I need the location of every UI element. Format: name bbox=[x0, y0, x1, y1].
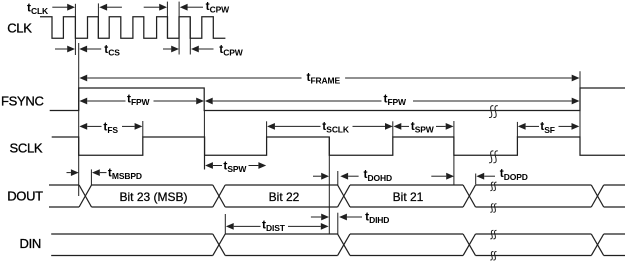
svg-text:FSYNC: FSYNC bbox=[1, 93, 44, 108]
svg-text:tCPW: tCPW bbox=[206, 0, 231, 15]
svg-text:tDOPD: tDOPD bbox=[500, 166, 528, 182]
svg-text:tSPW: tSPW bbox=[223, 158, 247, 174]
svg-text:tMSBPD: tMSBPD bbox=[108, 166, 142, 182]
svg-text:tSF: tSF bbox=[540, 119, 555, 135]
svg-text:SCLK: SCLK bbox=[10, 140, 43, 155]
svg-text:tFPW: tFPW bbox=[127, 92, 151, 108]
svg-text:tFPW: tFPW bbox=[384, 91, 408, 107]
svg-text:Bit 21: Bit 21 bbox=[393, 190, 424, 204]
svg-text:DIN: DIN bbox=[20, 236, 42, 251]
svg-text:tSPW: tSPW bbox=[411, 119, 435, 135]
svg-text:tFRAME: tFRAME bbox=[307, 70, 341, 86]
svg-text:DOUT: DOUT bbox=[7, 189, 43, 204]
svg-text:tDIHD: tDIHD bbox=[365, 210, 389, 226]
svg-text:tCLK: tCLK bbox=[27, 0, 49, 16]
svg-text:Bit 22: Bit 22 bbox=[269, 190, 300, 204]
svg-text:tCPW: tCPW bbox=[219, 42, 244, 58]
svg-text:tCS: tCS bbox=[104, 42, 120, 58]
svg-text:tDIST: tDIST bbox=[262, 218, 286, 234]
svg-text:tDOHD: tDOHD bbox=[364, 167, 392, 183]
svg-text:Bit 23 (MSB): Bit 23 (MSB) bbox=[119, 190, 187, 204]
svg-text:CLK: CLK bbox=[7, 20, 32, 35]
svg-text:tSCLK: tSCLK bbox=[322, 119, 350, 135]
svg-text:tFS: tFS bbox=[103, 119, 118, 135]
